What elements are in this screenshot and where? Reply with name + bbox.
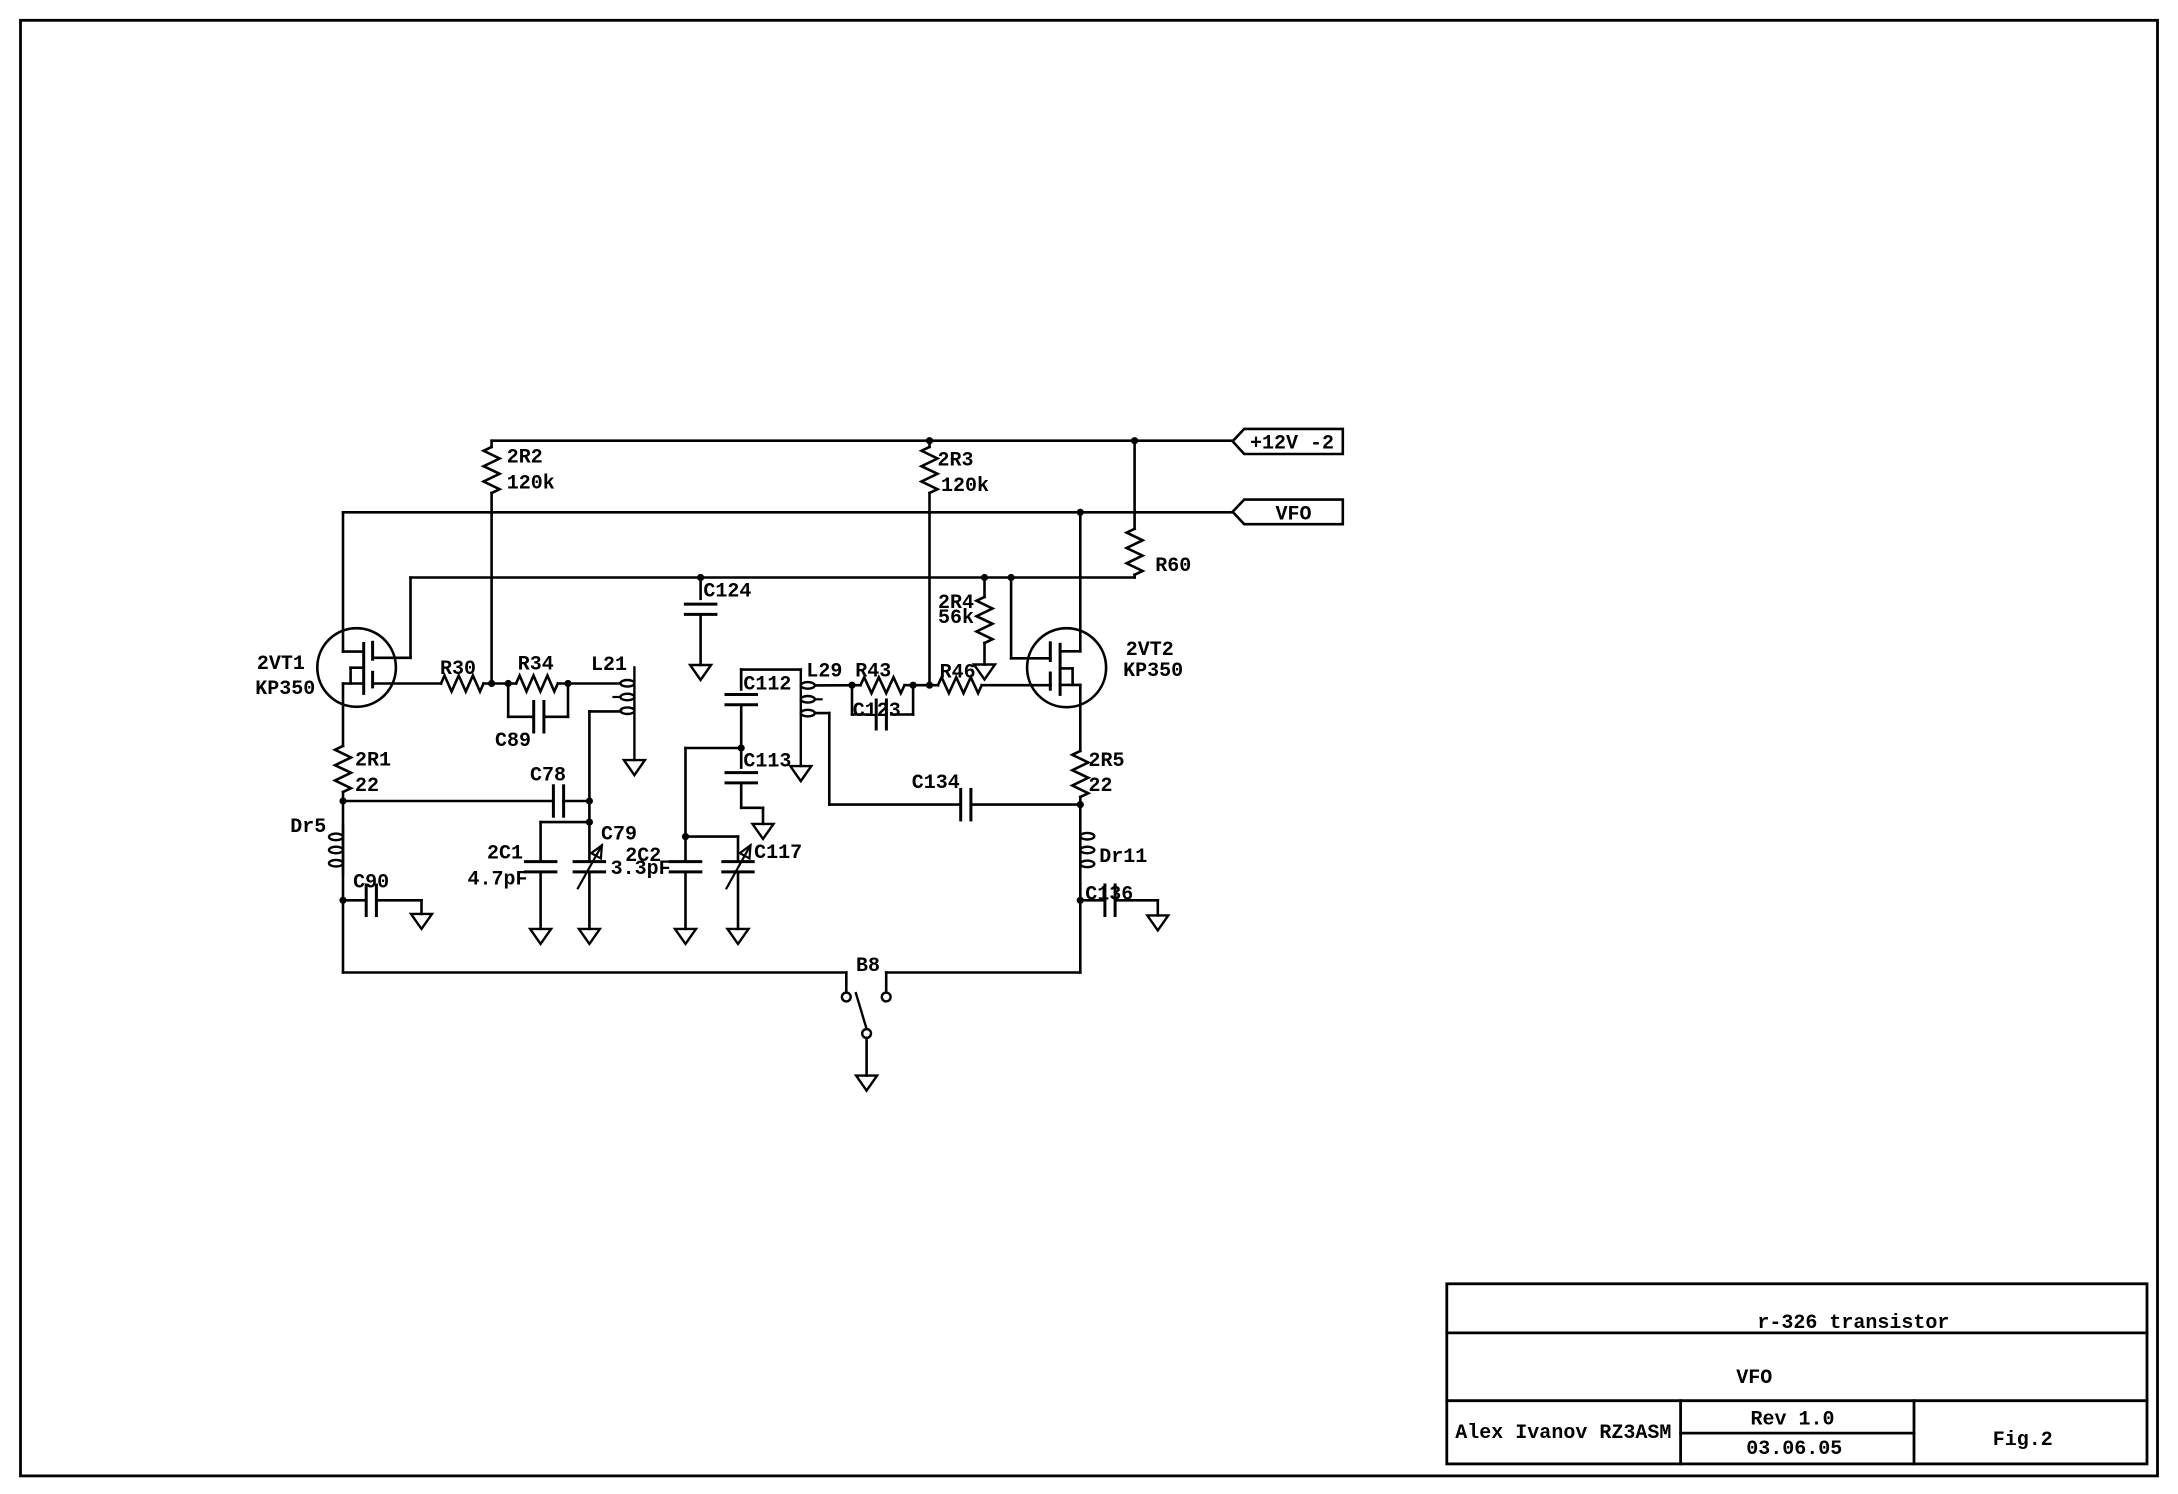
svg-text:120k: 120k: [507, 473, 555, 496]
svg-text:R34: R34: [518, 654, 554, 677]
svg-text:C124: C124: [703, 581, 751, 604]
svg-text:2R1: 2R1: [355, 749, 391, 772]
svg-text:2R3: 2R3: [938, 450, 974, 473]
svg-text:2VT2: 2VT2: [1126, 639, 1174, 662]
svg-text:Dr11: Dr11: [1099, 846, 1147, 869]
svg-text:2C1: 2C1: [487, 843, 523, 866]
svg-text:4.7pF: 4.7pF: [468, 869, 528, 892]
svg-text:22: 22: [1089, 775, 1113, 798]
svg-text:Alex Ivanov RZ3ASM: Alex Ivanov RZ3ASM: [1455, 1422, 1671, 1445]
svg-text:56k: 56k: [938, 607, 974, 630]
svg-text:C79: C79: [601, 824, 637, 847]
svg-text:L21: L21: [591, 654, 627, 677]
svg-text:3.3pF: 3.3pF: [611, 858, 671, 881]
svg-text:KP350: KP350: [1123, 660, 1183, 683]
svg-text:R60: R60: [1155, 555, 1191, 578]
svg-text:2R2: 2R2: [507, 447, 543, 470]
svg-text:120k: 120k: [941, 475, 989, 498]
svg-text:C113: C113: [743, 750, 791, 773]
svg-text:R30: R30: [440, 658, 476, 681]
svg-text:C117: C117: [754, 842, 802, 865]
svg-text:C78: C78: [530, 765, 566, 788]
svg-text:VFO: VFO: [1275, 504, 1311, 527]
svg-text:C89: C89: [495, 730, 531, 753]
svg-text:Rev 1.0: Rev 1.0: [1750, 1409, 1834, 1432]
svg-text:2R5: 2R5: [1089, 750, 1125, 773]
svg-text:C136: C136: [1085, 883, 1133, 906]
svg-text:22: 22: [355, 775, 379, 798]
svg-text:R46: R46: [940, 662, 976, 685]
svg-text:+12V -2: +12V -2: [1250, 433, 1334, 456]
svg-text:Dr5: Dr5: [290, 816, 326, 839]
svg-text:KP350: KP350: [255, 678, 315, 701]
svg-text:L29: L29: [806, 661, 842, 684]
svg-text:03.06.05: 03.06.05: [1746, 1438, 1842, 1461]
svg-text:R43: R43: [855, 661, 891, 684]
svg-text:r-326 transistor: r-326 transistor: [1757, 1312, 1949, 1335]
svg-text:C134: C134: [912, 772, 960, 795]
svg-text:C112: C112: [743, 674, 791, 697]
svg-text:C90: C90: [353, 872, 389, 895]
svg-text:C123: C123: [853, 700, 901, 723]
svg-text:Fig.2: Fig.2: [1993, 1429, 2053, 1452]
svg-text:2VT1: 2VT1: [257, 653, 305, 676]
svg-text:VFO: VFO: [1736, 1367, 1772, 1390]
svg-text:B8: B8: [856, 955, 880, 978]
